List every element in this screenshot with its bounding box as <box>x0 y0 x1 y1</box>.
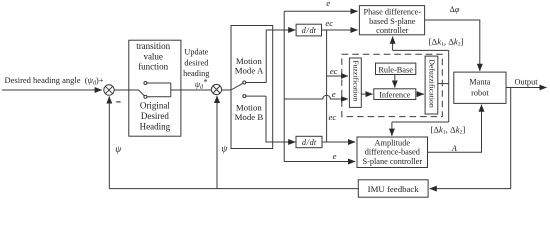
svg-text:[Δk1, Δk2]: [Δk1, Δk2] <box>429 36 464 47</box>
svg-text:Heading: Heading <box>140 121 171 131</box>
svg-text:Inference: Inference <box>379 91 411 100</box>
svg-text:e: e <box>326 0 330 8</box>
svg-text:Desired heading angle (ψd)+: Desired heading angle (ψd)+ <box>5 75 104 87</box>
svg-text:transition: transition <box>136 41 170 51</box>
svg-text:based S-plane: based S-plane <box>369 17 416 26</box>
svg-text:IMU feedback: IMU feedback <box>368 184 420 194</box>
svg-text:ψ: ψ <box>221 145 228 155</box>
svg-text:ec: ec <box>329 112 337 122</box>
svg-text:d / dt: d / dt <box>302 138 317 147</box>
svg-text:[Δk1, Δk2]: [Δk1, Δk2] <box>430 124 465 135</box>
svg-text:function: function <box>138 62 168 72</box>
svg-text:d / dt: d / dt <box>302 26 317 35</box>
svg-text:value: value <box>143 51 163 61</box>
svg-text:ec: ec <box>325 18 333 28</box>
svg-text:difference-based: difference-based <box>365 147 421 156</box>
svg-text:Defuzzification: Defuzzification <box>428 59 437 108</box>
svg-text:Motion: Motion <box>236 102 263 112</box>
svg-text:Mode B: Mode B <box>235 112 264 122</box>
svg-text:e: e <box>332 89 336 99</box>
svg-text:Update: Update <box>184 48 208 57</box>
svg-text:Amplitude: Amplitude <box>375 138 411 147</box>
svg-text:robot: robot <box>471 88 489 97</box>
svg-text:Original: Original <box>140 100 170 110</box>
svg-text:e: e <box>333 151 337 161</box>
svg-text:ψ: ψ <box>115 145 122 155</box>
svg-text:Rule-Base: Rule-Base <box>378 66 413 75</box>
svg-text:Phase difference-: Phase difference- <box>363 8 421 17</box>
svg-text:Fuzzification: Fuzzification <box>352 60 361 101</box>
svg-text:Motion: Motion <box>236 56 263 66</box>
svg-text:ψd*: ψd* <box>195 78 208 91</box>
svg-text:Manta: Manta <box>469 78 491 87</box>
svg-text:controller: controller <box>376 26 408 35</box>
svg-text:Desired: Desired <box>141 111 169 121</box>
svg-text:ec: ec <box>330 66 338 76</box>
svg-text:A: A <box>451 144 457 153</box>
svg-text:desired: desired <box>184 58 209 67</box>
svg-text:Δφ: Δφ <box>450 5 460 14</box>
svg-text:S-plane controller: S-plane controller <box>362 157 422 166</box>
svg-text:Output: Output <box>514 77 538 86</box>
svg-text:Mode A: Mode A <box>235 66 264 76</box>
